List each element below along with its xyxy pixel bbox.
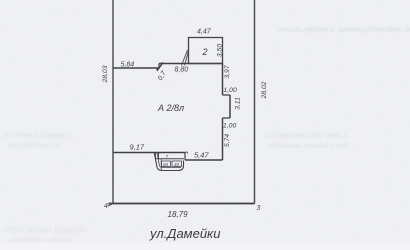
step at porch: [184, 153, 186, 161]
building A: bottom wall right segment (5,47): [185, 159, 223, 161]
svg-text:А 2/8л: А 2/8л: [157, 103, 184, 113]
faint bleed-through text middle left: [2, 130, 72, 149]
right wall middle (3,11): [229, 95, 231, 118]
svg-text:8,80: 8,80: [175, 67, 189, 74]
building A: bottom wall left segment (9,17): [113, 152, 185, 154]
land plot: right boundary line (side 2-3): [254, 0, 256, 204]
faint bleed-through text top right: [278, 24, 410, 34]
porch step rect left: [162, 161, 171, 167]
svg-text:5,74: 5,74: [224, 134, 231, 147]
svg-text:4: 4: [104, 203, 108, 210]
land plot: left boundary line (side 1-4): [112, 0, 114, 203]
squiggle mark at step top: [185, 152, 188, 154]
svg-text:18,79: 18,79: [168, 210, 189, 219]
porch top landing double ticks: [156, 153, 159, 159]
svg-text:28,03: 28,03: [102, 65, 109, 83]
svg-text:обложена кирпич: обложена кирпич: [6, 224, 86, 236]
svg-text:Н стена сарая и: Н стена сарая и: [2, 130, 72, 140]
svg-text:1,00: 1,00: [224, 87, 237, 94]
building A: right wall upper (3,97): [222, 64, 224, 96]
svg-text:2: 2: [202, 47, 208, 57]
svg-text:обмазана глиной и поб: обмазана глиной и поб: [268, 141, 350, 150]
right wall lower (5,74): [222, 118, 224, 160]
step back (1,00): [223, 117, 231, 119]
dimension labels: [102, 29, 268, 242]
svg-text:3,50: 3,50: [217, 44, 224, 57]
porch step rect right: [172, 161, 182, 167]
faint bleed-through text bottom left: [6, 224, 86, 244]
svg-text:7: 7: [166, 154, 169, 160]
svg-text:5,47: 5,47: [194, 151, 209, 160]
porch inner outline: [157, 153, 181, 170]
corner point 4 tick: [108, 204, 113, 207]
faint bleed-through text middle right: [266, 130, 350, 150]
svg-text:28,02: 28,02: [261, 81, 268, 99]
svg-text:5,84: 5,84: [121, 62, 135, 69]
svg-text:40: 40: [174, 162, 180, 167]
jog tick mark: [157, 62, 163, 71]
svg-text:ул.Дамейки: ул.Дамейки: [149, 226, 220, 241]
svg-text:шлакознисто вая с: шлакознисто вая с: [266, 130, 348, 140]
room 2 annex outline: [189, 38, 223, 64]
svg-text:60: 60: [163, 162, 169, 167]
svg-text:9,17: 9,17: [130, 143, 145, 152]
svg-text:фундамент бутов: фундамент бутов: [10, 236, 72, 244]
porch outer outline: [154, 153, 183, 171]
svg-text:1,00: 1,00: [223, 123, 236, 130]
lighter strip at bottom edge of scan: [0, 243, 410, 250]
porch mid horizontal: [155, 158, 184, 160]
svg-text:3,97: 3,97: [224, 65, 231, 78]
wall jog (0,7): [158, 64, 160, 69]
building A: top wall right segment (8,80): [159, 63, 223, 65]
svg-text:4,47: 4,47: [197, 29, 212, 36]
step out (1,00): [223, 94, 231, 96]
land plot: bottom boundary line (side 4-3) along street: [109, 203, 255, 205]
stove/steps diagonal marks at room 2 left: [182, 50, 189, 66]
paper texture: [0, 0, 1, 1]
svg-text:3: 3: [257, 205, 261, 212]
building A: top wall left segment (5,84): [113, 67, 159, 69]
svg-text:пныльоватя и апммицпfamilieс: пныльоватя и апммицпfamilieс обл: [278, 24, 410, 34]
svg-text:3,11: 3,11: [235, 97, 242, 110]
svg-text:пристройки низ: пристройки низ: [8, 141, 61, 149]
